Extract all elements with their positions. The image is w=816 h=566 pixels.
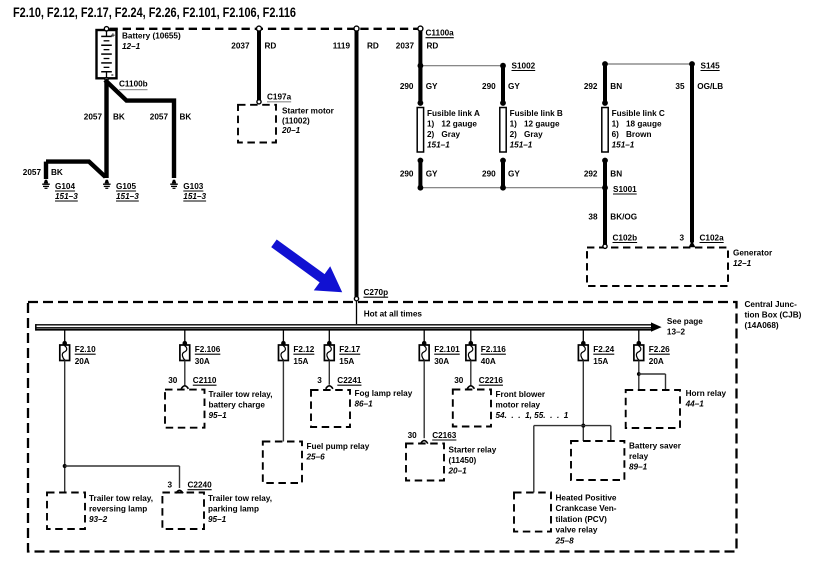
svg-text:Heated Positive: Heated Positive <box>556 494 617 503</box>
svg-text:BK: BK <box>113 113 125 122</box>
svg-text:F2.26: F2.26 <box>649 345 670 354</box>
svg-text:RD: RD <box>427 42 439 51</box>
svg-text:Trailer tow relay,: Trailer tow relay, <box>209 390 273 399</box>
svg-text:OG/LB: OG/LB <box>697 82 723 91</box>
svg-text:C2110: C2110 <box>193 376 217 385</box>
svg-text:1): 1) <box>612 120 620 129</box>
svg-text:Fusible link C: Fusible link C <box>612 109 665 118</box>
svg-text:GY: GY <box>426 82 438 91</box>
svg-text:2037: 2037 <box>396 42 415 51</box>
svg-text:Central Junc-: Central Junc- <box>745 300 798 309</box>
svg-text:2037: 2037 <box>231 42 250 51</box>
svg-text:BN: BN <box>610 82 622 91</box>
svg-text:Fog lamp relay: Fog lamp relay <box>355 389 413 398</box>
svg-text:C2241: C2241 <box>337 376 362 385</box>
svg-text:290: 290 <box>482 82 496 91</box>
svg-text:1119: 1119 <box>333 42 351 51</box>
svg-text:15A: 15A <box>293 357 308 366</box>
svg-text:Horn relay: Horn relay <box>686 389 727 398</box>
svg-text:Gray: Gray <box>524 130 543 139</box>
svg-text:3: 3 <box>679 233 684 242</box>
svg-text:151–3: 151–3 <box>183 192 206 201</box>
svg-text:tion Box (CJB): tion Box (CJB) <box>745 311 802 320</box>
svg-text:Crankcase Ven-: Crankcase Ven- <box>556 504 617 513</box>
svg-text:S1002: S1002 <box>512 61 536 70</box>
svg-text:(11450): (11450) <box>449 456 477 465</box>
svg-text:95–1: 95–1 <box>209 411 228 420</box>
svg-text:44–1: 44–1 <box>685 400 705 409</box>
svg-text:151–1: 151–1 <box>612 141 635 150</box>
svg-text:86–1: 86–1 <box>355 400 374 409</box>
svg-text:+: + <box>111 30 116 39</box>
svg-text:Fusible link B: Fusible link B <box>510 109 563 118</box>
svg-text:F2.10: F2.10 <box>75 345 96 354</box>
svg-text:G104: G104 <box>55 182 75 191</box>
svg-text:290: 290 <box>482 170 496 179</box>
svg-text:C270p: C270p <box>364 288 389 297</box>
svg-text:C1100a: C1100a <box>426 29 455 38</box>
svg-text:parking lamp: parking lamp <box>208 505 259 514</box>
svg-text:12 gauge: 12 gauge <box>524 120 560 129</box>
svg-text:3: 3 <box>317 376 322 385</box>
svg-text:Trailer tow relay,: Trailer tow relay, <box>89 494 153 503</box>
svg-text:BK/OG: BK/OG <box>610 213 637 222</box>
svg-text:Starter relay: Starter relay <box>449 445 497 454</box>
svg-text:292: 292 <box>584 82 598 91</box>
svg-text:F2.10, F2.12, F2.17, F2.24, F2: F2.10, F2.12, F2.17, F2.24, F2.26, F2.10… <box>13 5 296 21</box>
svg-text:12–1: 12–1 <box>733 259 752 268</box>
svg-text:20A: 20A <box>649 357 664 366</box>
svg-text:Battery (10655): Battery (10655) <box>122 32 181 41</box>
svg-text:1): 1) <box>510 120 518 129</box>
svg-text:151–1: 151–1 <box>510 141 533 150</box>
svg-text:tilation (PCV): tilation (PCV) <box>556 515 608 524</box>
svg-text:2): 2) <box>427 130 435 139</box>
svg-text:38: 38 <box>588 213 598 222</box>
svg-text:F2.106: F2.106 <box>195 345 221 354</box>
svg-text:Starter motor: Starter motor <box>282 107 335 116</box>
svg-text:C1100b: C1100b <box>119 80 148 89</box>
svg-text:6): 6) <box>612 130 620 139</box>
svg-text:Trailer tow relay,: Trailer tow relay, <box>208 494 272 503</box>
svg-text:12 gauge: 12 gauge <box>441 120 477 129</box>
svg-text:25–8: 25–8 <box>555 536 575 545</box>
svg-text:F2.116: F2.116 <box>481 345 506 354</box>
svg-text:C102b: C102b <box>613 233 638 242</box>
svg-text:S145: S145 <box>701 61 721 70</box>
svg-text:12–1: 12–1 <box>122 42 141 51</box>
svg-text:See page: See page <box>667 317 703 326</box>
svg-text:valve relay: valve relay <box>556 526 598 535</box>
svg-text:relay: relay <box>629 452 649 461</box>
svg-text:Brown: Brown <box>626 130 651 139</box>
svg-text:2057: 2057 <box>23 168 42 177</box>
svg-text:GY: GY <box>508 82 520 91</box>
svg-text:Battery saver: Battery saver <box>629 442 682 451</box>
svg-text:Fusible link A: Fusible link A <box>427 109 480 118</box>
svg-text:151–1: 151–1 <box>427 141 450 150</box>
svg-text:S1001: S1001 <box>613 185 637 194</box>
svg-text:290: 290 <box>400 170 414 179</box>
svg-text:G105: G105 <box>116 182 136 191</box>
svg-text:30A: 30A <box>195 357 210 366</box>
svg-text:20A: 20A <box>75 357 90 366</box>
svg-text:95–1: 95–1 <box>208 515 227 524</box>
svg-text:RD: RD <box>265 42 277 51</box>
svg-text:89–1: 89–1 <box>629 463 648 472</box>
svg-text:motor relay: motor relay <box>496 400 541 409</box>
svg-text:F2.12: F2.12 <box>293 345 314 354</box>
svg-text:3: 3 <box>167 481 172 490</box>
svg-text:292: 292 <box>584 170 598 179</box>
svg-text:RD: RD <box>367 42 379 51</box>
svg-text:20–1: 20–1 <box>281 126 301 135</box>
svg-text:Gray: Gray <box>441 130 460 139</box>
svg-text:G103: G103 <box>183 182 203 191</box>
svg-text:30: 30 <box>168 376 178 385</box>
svg-text:2): 2) <box>510 130 518 139</box>
svg-text:(11002): (11002) <box>282 117 310 126</box>
svg-text:Hot at all times: Hot at all times <box>364 310 423 319</box>
svg-text:BK: BK <box>51 168 63 177</box>
svg-text:C102a: C102a <box>700 233 725 242</box>
svg-text:2057: 2057 <box>150 113 169 122</box>
svg-text:F2.101: F2.101 <box>434 345 460 354</box>
svg-text:BN: BN <box>610 170 622 179</box>
svg-text:C2216: C2216 <box>479 376 504 385</box>
svg-text:GY: GY <box>426 170 438 179</box>
svg-text:13–2: 13–2 <box>667 328 686 337</box>
svg-text:GY: GY <box>508 170 520 179</box>
svg-text:reversing lamp: reversing lamp <box>89 505 147 514</box>
svg-text:F2.17: F2.17 <box>339 345 360 354</box>
svg-text:20–1: 20–1 <box>448 466 468 475</box>
svg-text:25–6: 25–6 <box>306 453 326 462</box>
svg-text:35: 35 <box>675 82 685 91</box>
svg-text:30: 30 <box>454 376 464 385</box>
svg-text:15A: 15A <box>339 357 354 366</box>
svg-text:BK: BK <box>180 113 192 122</box>
svg-text:54. . . 1, 55. . . 1: 54. . . 1, 55. . . 1 <box>496 411 569 420</box>
svg-text:Fuel pump relay: Fuel pump relay <box>307 442 370 451</box>
svg-text:C2163: C2163 <box>432 431 457 440</box>
svg-text:(14A068): (14A068) <box>745 321 779 330</box>
svg-text:Front blower: Front blower <box>496 390 546 399</box>
svg-text:C197a: C197a <box>267 93 292 102</box>
svg-text:15A: 15A <box>593 357 608 366</box>
svg-text:290: 290 <box>400 82 414 91</box>
svg-text:Generator: Generator <box>733 249 773 258</box>
svg-text:151–3: 151–3 <box>116 192 139 201</box>
svg-text:2057: 2057 <box>84 113 103 122</box>
svg-text:93–2: 93–2 <box>89 515 108 524</box>
svg-text:1): 1) <box>427 120 435 129</box>
svg-text:18 gauge: 18 gauge <box>626 120 662 129</box>
svg-text:40A: 40A <box>481 357 496 366</box>
svg-text:151–3: 151–3 <box>55 192 78 201</box>
svg-text:F2.24: F2.24 <box>593 345 614 354</box>
svg-text:30A: 30A <box>434 357 449 366</box>
svg-text:C2240: C2240 <box>188 481 213 490</box>
svg-text:30: 30 <box>408 431 418 440</box>
svg-text:battery charge: battery charge <box>209 400 266 409</box>
svg-text:-: - <box>111 70 114 79</box>
